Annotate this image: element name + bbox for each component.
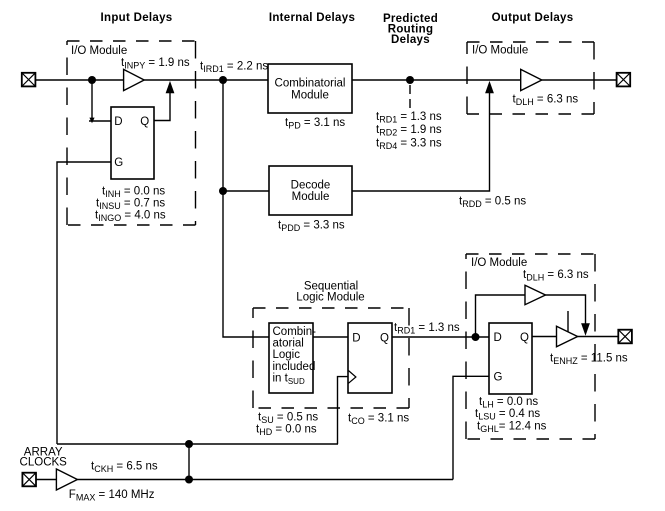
svg-text:tENHZ = 11.5 ns: tENHZ = 11.5 ns [550, 352, 628, 366]
svg-text:Internal Delays: Internal Delays [269, 12, 355, 24]
svg-text:Input Delays: Input Delays [101, 12, 173, 24]
svg-text:CLOCKS: CLOCKS [20, 457, 68, 469]
svg-text:Logic Module: Logic Module [296, 291, 364, 303]
svg-text:D: D [352, 332, 360, 344]
svg-text:Logic: Logic [273, 349, 301, 361]
svg-text:tDLH = 6.3 ns: tDLH = 6.3 ns [513, 94, 579, 108]
svg-text:tINPY = 1.9 ns: tINPY = 1.9 ns [121, 57, 190, 71]
svg-text:tDLH = 6.3 ns: tDLH = 6.3 ns [523, 269, 589, 283]
svg-text:tCKH = 6.5 ns: tCKH = 6.5 ns [91, 461, 158, 475]
svg-text:tPDD = 3.3 ns: tPDD = 3.3 ns [278, 220, 345, 234]
svg-text:atorial: atorial [273, 338, 304, 350]
svg-text:Combin-: Combin- [273, 326, 317, 338]
svg-text:I/O Module: I/O Module [471, 257, 527, 269]
svg-text:Q: Q [520, 332, 529, 344]
svg-text:Module: Module [292, 191, 330, 203]
svg-text:tRD1 = 1.3 ns: tRD1 = 1.3 ns [394, 322, 460, 336]
svg-text:included: included [273, 361, 316, 373]
svg-text:tHD = 0.0 ns: tHD = 0.0 ns [256, 424, 317, 438]
svg-text:D: D [494, 332, 502, 344]
svg-text:Decode: Decode [291, 179, 331, 191]
svg-text:tIRD1 = 2.2 ns: tIRD1 = 2.2 ns [200, 61, 268, 75]
svg-text:G: G [494, 372, 503, 384]
svg-text:Output Delays: Output Delays [492, 12, 574, 24]
svg-text:tRD2 = 1.9 ns: tRD2 = 1.9 ns [376, 124, 442, 138]
svg-text:tINGO = 4.0 ns: tINGO = 4.0 ns [95, 210, 166, 224]
svg-text:tPD = 3.1 ns: tPD = 3.1 ns [285, 117, 345, 131]
svg-text:I/O Module: I/O Module [472, 45, 528, 57]
svg-text:FMAX = 140 MHz: FMAX = 140 MHz [69, 489, 155, 503]
svg-text:I/O Module: I/O Module [71, 45, 127, 57]
svg-text:Module: Module [291, 90, 329, 102]
svg-text:Delays: Delays [391, 34, 430, 46]
svg-text:tCO = 3.1 ns: tCO = 3.1 ns [348, 412, 409, 426]
svg-text:Q: Q [380, 332, 389, 344]
svg-text:tRD4 = 3.3 ns: tRD4 = 3.3 ns [376, 137, 442, 151]
svg-text:Q: Q [140, 116, 149, 128]
svg-text:Combinatorial: Combinatorial [275, 78, 346, 90]
svg-text:D: D [114, 116, 122, 128]
svg-text:tRDD = 0.5 ns: tRDD = 0.5 ns [459, 196, 526, 210]
svg-text:tRD1 = 1.3 ns: tRD1 = 1.3 ns [376, 111, 442, 125]
svg-text:G: G [114, 157, 123, 169]
svg-text:tGHL= 12.4 ns: tGHL= 12.4 ns [477, 420, 547, 434]
